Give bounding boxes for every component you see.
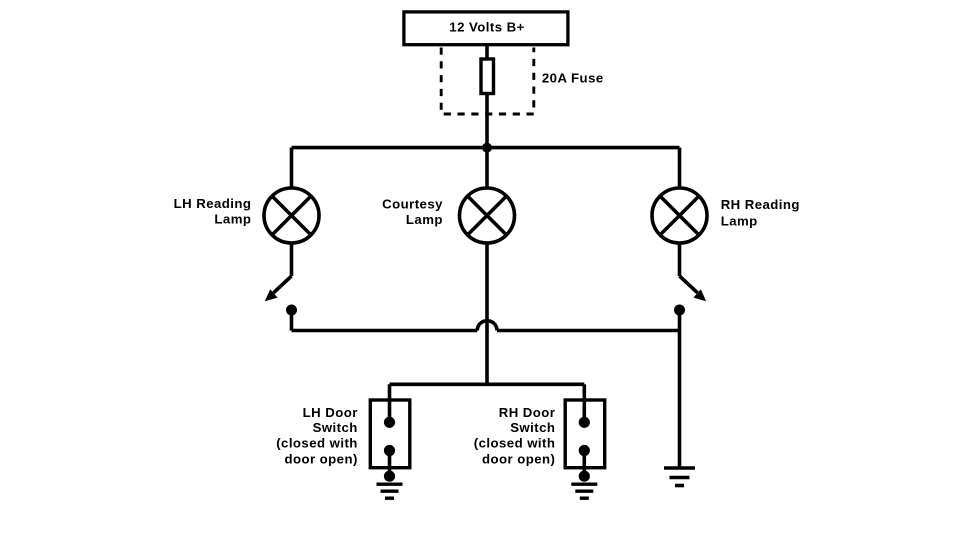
wire RH lower contact to ground	[582, 451, 586, 477]
svg-text:Lamp: Lamp	[214, 212, 251, 227]
dashed fuse holder outline	[441, 48, 534, 115]
wire courtesy lamp down to branch	[485, 244, 489, 384]
switch LH contact dot	[286, 305, 297, 316]
door switch RH ground node dot	[579, 471, 590, 482]
ground symbol LH door switch	[377, 484, 403, 498]
svg-text:door open): door open)	[482, 451, 555, 466]
svg-text:Switch: Switch	[510, 420, 555, 435]
wire RH lamp to switch	[678, 244, 682, 276]
door switch LH lower contact dot	[384, 445, 395, 456]
svg-text:Lamp: Lamp	[406, 212, 443, 227]
battery box 12V B+	[404, 12, 568, 45]
wire bus to RH lamp	[678, 148, 682, 187]
wire hop over courtesy wire	[477, 321, 497, 331]
wire LH lamp to switch	[290, 244, 294, 276]
wire RH switch node to chassis ground	[678, 331, 682, 468]
label RH Reading Lamp	[721, 197, 800, 228]
wire LH switch to bottom bus	[290, 310, 294, 331]
label LH Reading Lamp	[174, 196, 252, 227]
wire battery to fuse	[485, 45, 489, 58]
svg-text:RH Reading: RH Reading	[721, 197, 800, 212]
wire LH lower contact to ground	[388, 451, 392, 477]
switch RH arrowhead	[693, 289, 706, 301]
svg-text:12 Volts B+: 12 Volts B+	[449, 20, 524, 35]
junction dot top bus	[482, 143, 492, 153]
wire top bus	[292, 146, 680, 150]
wire fuse to top bus	[485, 95, 489, 148]
svg-text:(closed with: (closed with	[276, 435, 358, 450]
wire bottom bus left segment	[292, 329, 478, 333]
label RH Door Switch	[474, 405, 556, 467]
door switch LH upper contact dot	[384, 417, 395, 428]
wire branch drop RH door switch	[582, 384, 586, 422]
door switch LH ground node dot	[384, 471, 395, 482]
wire bottom bus right segment	[497, 329, 680, 333]
svg-text:Switch: Switch	[313, 420, 358, 435]
svg-text:door open): door open)	[284, 451, 357, 466]
switch RH blade	[680, 276, 698, 293]
switch RH contact dot	[674, 305, 685, 316]
wire bus to LH lamp	[290, 148, 294, 187]
svg-text:20A Fuse: 20A Fuse	[542, 71, 604, 86]
door switch LH box	[370, 400, 410, 468]
lamp Courtesy	[460, 188, 515, 243]
door switch RH upper contact dot	[579, 417, 590, 428]
wire branch drop LH door switch	[388, 384, 392, 422]
switch LH blade	[274, 276, 292, 293]
ground symbol RH door switch	[571, 484, 597, 498]
switch LH arrowhead	[265, 289, 278, 301]
lamp LH Reading	[264, 188, 319, 243]
label LH Door Switch	[276, 405, 358, 467]
svg-text:(closed with: (closed with	[474, 435, 556, 450]
svg-text:Lamp: Lamp	[721, 213, 758, 228]
svg-text:LH Door: LH Door	[303, 405, 358, 420]
label Courtesy Lamp	[382, 196, 443, 227]
lamp RH Reading	[652, 188, 707, 243]
svg-text:RH Door: RH Door	[499, 405, 556, 420]
wire RH switch to bottom bus	[678, 310, 682, 331]
svg-text:Courtesy: Courtesy	[382, 196, 443, 211]
door switch RH box	[565, 400, 605, 468]
wire branch to door switches	[390, 382, 585, 386]
door switch RH lower contact dot	[579, 445, 590, 456]
svg-text:LH Reading: LH Reading	[174, 196, 252, 211]
fuse F1 body	[481, 59, 494, 94]
wire bus to courtesy lamp	[485, 148, 489, 187]
ground symbol chassis RH	[664, 468, 695, 486]
